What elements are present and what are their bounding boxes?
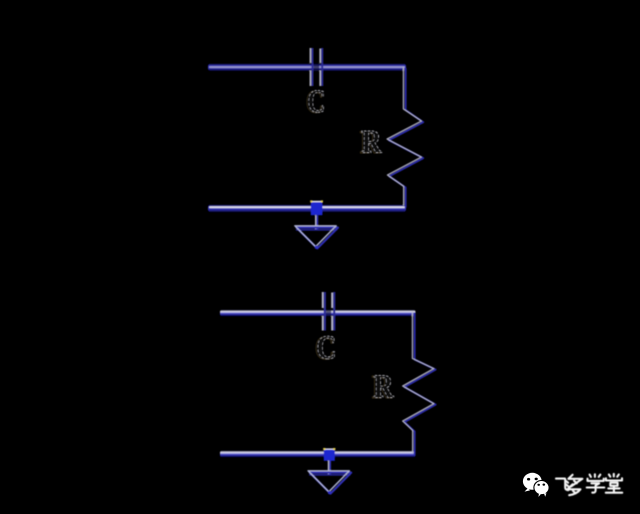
capacitor C (circuit 2) [322, 292, 336, 331]
char 堂 [606, 474, 622, 493]
ground symbol triangle (circuit 2) [308, 471, 351, 495]
char 飞 [556, 479, 570, 491]
svg-text:R: R [362, 125, 383, 161]
svg-text:R: R [374, 369, 394, 406]
wechat icon big bubble [523, 473, 542, 492]
node junction square (circuit 2) [323, 448, 335, 461]
ground symbol triangle (circuit 1) [295, 226, 338, 249]
wire top horizontal (circuit 1 input) [208, 64, 406, 71]
char 多 [567, 475, 582, 495]
watermark text 飞多学堂 (drawn as strokes) [556, 474, 622, 495]
node junction square (circuit 1) [310, 200, 323, 215]
ground stem (circuit 2) [328, 461, 331, 475]
wire bottom horizontal (circuit 2 ground rail) [220, 451, 416, 458]
char 学 [587, 474, 605, 492]
wechat icon small bubble [534, 481, 549, 497]
capacitor C (circuit 1) [310, 48, 324, 86]
ground stem (circuit 1) [315, 215, 318, 230]
wire bottom horizontal (circuit 1 ground rail) [208, 205, 406, 213]
resistor R (circuit 2) with right-side wire [403, 312, 436, 454]
resistor R (circuit 1) with right-side wire [387, 67, 423, 207]
wire top horizontal (circuit 2 input) [220, 310, 416, 316]
svg-text:C: C [308, 84, 326, 120]
svg-text:C: C [317, 330, 337, 367]
